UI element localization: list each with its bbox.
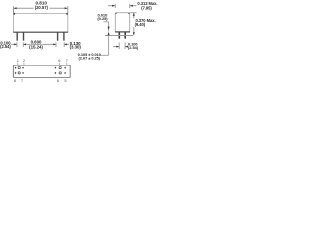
svg-text:6: 6	[57, 78, 59, 83]
svg-text:8: 8	[14, 78, 16, 83]
svg-text:(2.54): (2.54)	[128, 45, 139, 50]
svg-text:1: 1	[17, 58, 19, 63]
svg-text:5: 5	[64, 78, 66, 83]
svg-text:(15.24): (15.24)	[29, 44, 43, 49]
svg-text:(9.40): (9.40)	[135, 22, 146, 27]
svg-text:7: 7	[21, 78, 23, 83]
svg-text:(7.95): (7.95)	[141, 6, 152, 11]
svg-text:(2.54): (2.54)	[0, 44, 11, 49]
svg-text:(2.67 ± 0.25): (2.67 ± 0.25)	[79, 56, 101, 61]
svg-text:(20.57): (20.57)	[35, 5, 49, 10]
svg-text:(0.25): (0.25)	[97, 16, 108, 21]
svg-text:2: 2	[23, 58, 25, 63]
svg-text:7: 7	[66, 58, 68, 63]
svg-text:(3.30): (3.30)	[70, 44, 82, 49]
svg-text:6: 6	[58, 58, 60, 63]
